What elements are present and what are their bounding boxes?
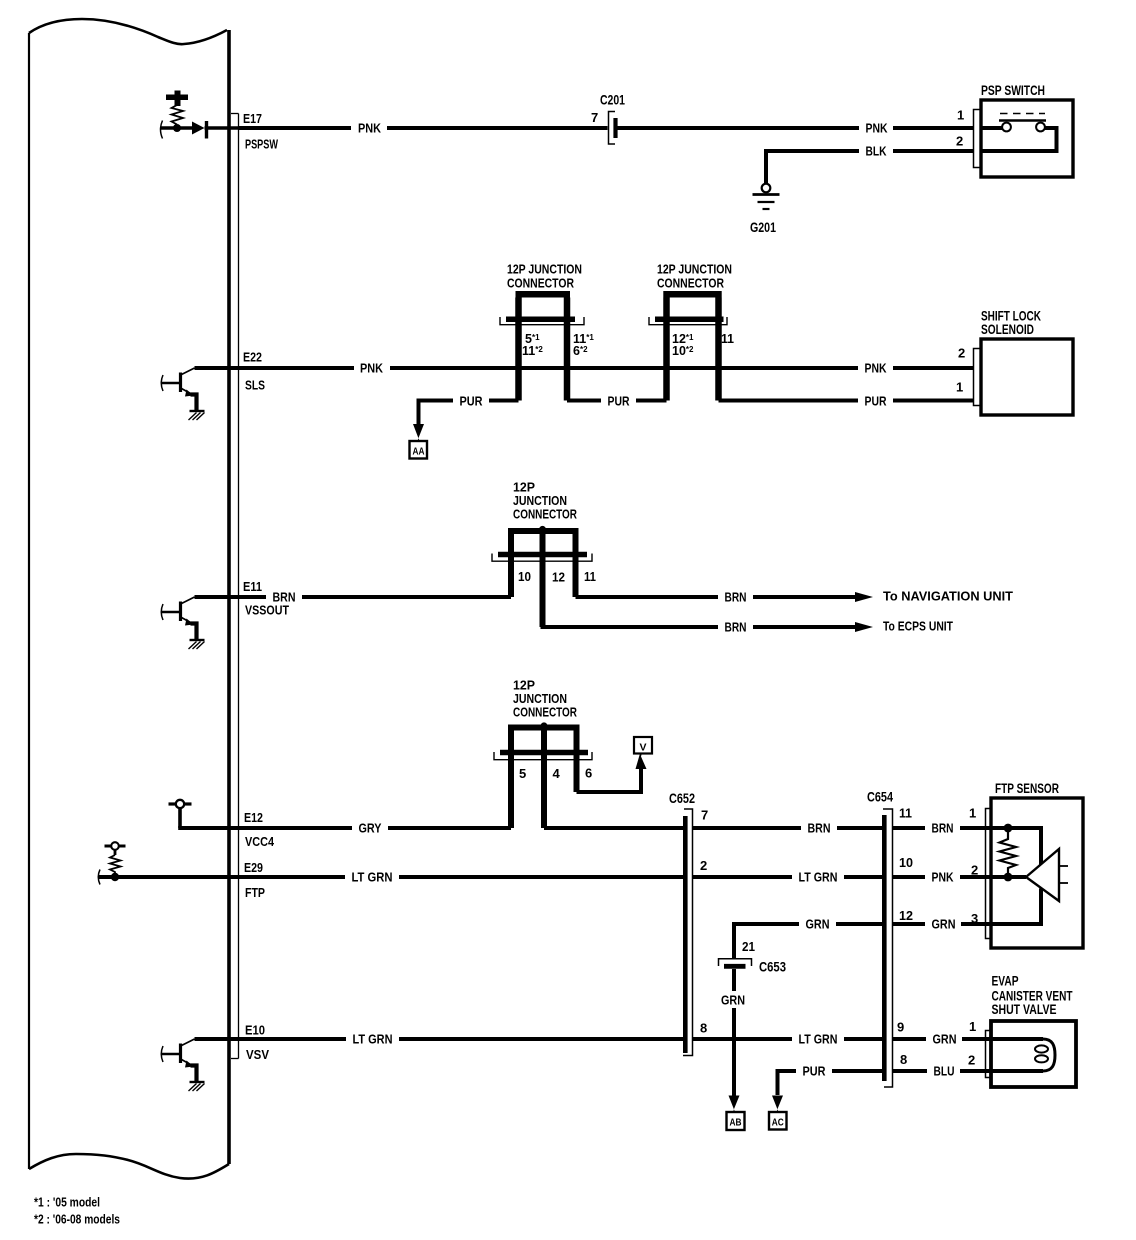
svg-text:VSV: VSV <box>246 1047 269 1062</box>
svg-text:12: 12 <box>899 908 913 923</box>
svg-text:E10: E10 <box>245 1023 265 1038</box>
label JC2 title <box>657 262 732 291</box>
svg-text:8: 8 <box>700 1021 707 1036</box>
FTP internal junction dot (pin2) <box>1004 873 1013 882</box>
svg-text:C652: C652 <box>669 791 695 806</box>
svg-text:2: 2 <box>700 858 707 873</box>
E17 internal diode <box>192 121 241 139</box>
svg-text:4: 4 <box>553 766 561 781</box>
junction connector JC4 (12P) body <box>494 722 592 828</box>
node AC (destination box) <box>769 1112 787 1130</box>
svg-text:8: 8 <box>900 1052 907 1067</box>
svg-text:11: 11 <box>899 806 912 821</box>
label PUR (AA branch) <box>453 392 489 409</box>
shift lock solenoid pin bracket <box>974 349 982 406</box>
EVAP canister vent shut valve box <box>991 974 1076 1088</box>
label GRN (vertical) <box>716 991 752 1008</box>
label GRN (row6 right) <box>925 915 961 932</box>
node AB (destination box) <box>727 1112 745 1130</box>
arrow to navigation unit <box>855 592 873 602</box>
E29 internal wire end bracket <box>98 870 100 885</box>
svg-text:V: V <box>639 742 646 754</box>
svg-text:FTP SENSOR: FTP SENSOR <box>995 781 1059 796</box>
svg-text:PUR: PUR <box>865 394 887 409</box>
label JC3 pins 10 12 11 <box>518 569 596 585</box>
svg-text:11: 11 <box>584 569 596 584</box>
label PNK (left segment row1) <box>351 119 387 136</box>
svg-text:1: 1 <box>969 1019 976 1034</box>
svg-text:SOLENOID: SOLENOID <box>981 322 1034 337</box>
label JC2 pin 12*1 / 10*2 / 11 <box>672 331 734 358</box>
E17 internal resistor <box>172 105 184 125</box>
svg-text:CONNECTOR: CONNECTOR <box>513 705 577 720</box>
svg-text:BLK: BLK <box>866 144 887 159</box>
wire PNK C201 to PSP switch <box>618 126 974 130</box>
svg-text:*1 : '05 model: *1 : '05 model <box>34 1196 100 1210</box>
label JC4 pins 5 4 6 <box>519 766 592 782</box>
svg-text:*2 : '06-08 models: *2 : '06-08 models <box>34 1213 120 1227</box>
FTP internal amplifier triangle <box>1026 849 1068 901</box>
label PNK (right segment row1) <box>859 119 893 136</box>
svg-text:BRN: BRN <box>273 590 296 605</box>
wire PUR AC branch to C654 pin 8 (row8) <box>778 1071 883 1095</box>
label PNK (row2 right) <box>858 359 893 376</box>
svg-text:BRN: BRN <box>725 590 747 605</box>
E17 node junction dot <box>173 124 181 132</box>
label BLK <box>859 142 893 159</box>
svg-text:1: 1 <box>969 806 976 821</box>
label PUR (row8) <box>796 1062 832 1079</box>
svg-text:C654: C654 <box>867 790 893 805</box>
wire LT GRN C652 to C654 (row5) <box>693 875 883 879</box>
wire JC4 pin 6 to V <box>577 768 642 792</box>
svg-text:2: 2 <box>956 134 963 149</box>
label GRN (row7 right) <box>926 1030 962 1047</box>
svg-text:10: 10 <box>518 569 531 584</box>
label LT GRN (row5 mid) <box>792 868 844 885</box>
svg-text:PNK: PNK <box>358 121 382 136</box>
svg-text:PUR: PUR <box>460 394 484 409</box>
svg-text:E12: E12 <box>244 810 263 825</box>
svg-text:CONNECTOR: CONNECTOR <box>513 507 577 522</box>
svg-text:BRN: BRN <box>932 821 954 836</box>
svg-text:GRN: GRN <box>721 993 745 1008</box>
svg-text:21: 21 <box>742 939 755 954</box>
label BRN (row4 mid) <box>801 819 837 836</box>
svg-text:GRN: GRN <box>932 917 956 932</box>
connector C654 <box>867 790 893 1088</box>
wire BRN JC3 pin 11 to navigation unit <box>576 595 858 599</box>
svg-text:To NAVIGATION UNIT: To NAVIGATION UNIT <box>883 589 1013 604</box>
transistor Q-E11 (VSSOUT driver) <box>161 597 196 640</box>
label LT GRN (row7 left) <box>346 1030 399 1047</box>
label JC4 title <box>513 678 577 720</box>
svg-text:LT GRN: LT GRN <box>352 870 393 885</box>
svg-text:PNK: PNK <box>866 121 888 136</box>
wire PUR JC1 to JC2 <box>567 399 667 403</box>
ground (E11 emitter) <box>189 640 205 649</box>
wire PNK E17 to C201 <box>239 126 608 130</box>
label BRN (row3 left) <box>266 588 302 605</box>
svg-text:12P JUNCTION: 12P JUNCTION <box>657 262 732 277</box>
svg-text:FTP: FTP <box>245 885 265 900</box>
svg-text:GRN: GRN <box>933 1032 957 1047</box>
ECM pin strip (thin connector rail) <box>231 114 239 1059</box>
arrow into AC <box>772 1096 783 1113</box>
E17 internal wire <box>161 126 192 130</box>
svg-text:PUR: PUR <box>803 1064 827 1079</box>
label BRN (ECPS) <box>718 618 753 635</box>
svg-text:2: 2 <box>971 863 978 878</box>
svg-text:G201: G201 <box>750 220 776 235</box>
junction connector JC2 (12P) body <box>649 294 727 400</box>
svg-text:SLS: SLS <box>245 378 265 393</box>
svg-text:1: 1 <box>957 108 964 123</box>
svg-text:PSP SWITCH: PSP SWITCH <box>981 83 1045 98</box>
wire GRN C653 to AB <box>732 969 736 1097</box>
svg-text:LT GRN: LT GRN <box>353 1032 393 1047</box>
svg-text:CONNECTOR: CONNECTOR <box>657 276 724 291</box>
svg-text:2: 2 <box>968 1053 975 1068</box>
svg-text:C201: C201 <box>600 93 625 108</box>
svg-text:VCC4: VCC4 <box>245 834 275 849</box>
FTP internal wire pin1 to amplifier <box>1008 828 1041 865</box>
wire GRY E12 to JC4 pin 5 <box>178 826 511 830</box>
label PUR (JC1-JC2) <box>601 392 636 409</box>
wire LT GRN E29 to C652 pin 2 <box>99 875 684 879</box>
svg-text:GRY: GRY <box>359 821 382 836</box>
EVAP solenoid coil <box>1035 1039 1055 1071</box>
label BRN (nav) <box>718 588 753 605</box>
label PNK (row2 left) <box>354 359 390 376</box>
svg-text:12P JUNCTION: 12P JUNCTION <box>507 262 582 277</box>
svg-text:BLU: BLU <box>934 1064 955 1079</box>
svg-text:AB: AB <box>730 1117 742 1129</box>
transistor Q-E22 (SLS driver) <box>161 368 196 411</box>
label LT GRN (row7 mid) <box>792 1030 844 1047</box>
svg-text:EVAP: EVAP <box>992 974 1019 989</box>
svg-text:1: 1 <box>956 380 963 395</box>
wire BLK PSP switch to G201 <box>766 151 974 184</box>
E17 internal pull-up power symbol <box>166 91 188 107</box>
node V (destination box) <box>634 737 652 754</box>
svg-text:5: 5 <box>519 766 526 781</box>
wire BRN C654 to FTP sensor pin 1 <box>893 826 1042 830</box>
svg-text:To ECPS UNIT: To ECPS UNIT <box>883 619 953 634</box>
svg-text:E11: E11 <box>243 579 262 594</box>
wire BRN C652 to C654 (row4) <box>693 826 883 830</box>
svg-text:AC: AC <box>772 1117 784 1129</box>
wire GRN C653 branch to FTP pin 3 (row6) <box>734 922 882 926</box>
svg-text:GRN: GRN <box>806 917 830 932</box>
svg-text:E17: E17 <box>243 111 262 126</box>
FTP internal resistor <box>1000 832 1017 873</box>
connector C653 <box>719 939 787 975</box>
svg-text:PNK: PNK <box>865 361 887 376</box>
svg-text:LT GRN: LT GRN <box>799 1032 838 1047</box>
svg-text:BRN: BRN <box>725 620 747 635</box>
wire PUR JC2 to shift lock solenoid <box>719 399 974 403</box>
label BRN (row4 right) <box>925 819 960 836</box>
junction connector JC1 (12P) body <box>500 294 584 400</box>
svg-text:AA: AA <box>413 446 425 458</box>
wire BLU C654 to EVAP valve pin 2 <box>893 1069 1044 1073</box>
label BLU (row8 right) <box>927 1062 960 1079</box>
label PUR (row2 right) <box>858 392 893 409</box>
ground (E22 emitter) <box>189 411 205 420</box>
label JC3 title <box>513 480 577 522</box>
ground G201 <box>750 184 780 235</box>
wire PNK C654 to FTP sensor pin 2 <box>893 875 1027 879</box>
svg-text:7: 7 <box>701 808 708 823</box>
label JC1 pin 5*1 / 11*2 <box>522 332 594 358</box>
wire GRY JC4 pin 4 to C652 pin 7 <box>544 826 683 830</box>
PSP switch internal contacts <box>981 114 1057 152</box>
E29 node junction dot <box>111 873 119 881</box>
svg-text:E22: E22 <box>243 350 262 365</box>
label GRN (row6 left) <box>799 915 836 932</box>
arrow into AA <box>413 424 424 441</box>
svg-text:CONNECTOR: CONNECTOR <box>507 276 574 291</box>
svg-text:2: 2 <box>958 346 965 361</box>
transistor Q-E10 (VSV driver) <box>161 1039 196 1082</box>
svg-text:PNK: PNK <box>932 870 954 885</box>
FTP sensor pin bracket <box>986 809 992 939</box>
E29 internal power source symbol <box>105 842 126 855</box>
wire BRN E11 to JC3 pin 10 <box>195 595 512 599</box>
svg-text:PUR: PUR <box>608 394 630 409</box>
E29 internal resistor <box>110 855 121 877</box>
svg-text:7: 7 <box>591 110 598 125</box>
svg-text:12: 12 <box>552 570 565 585</box>
FTP sensor box <box>991 781 1083 948</box>
ECM/PCM body box (torn edges) <box>29 19 229 1179</box>
wire BRN JC3 pin 12 to ECPS unit <box>543 597 858 627</box>
connector C652 <box>669 791 695 1056</box>
wire GRN C654 to EVAP valve pin 1 <box>893 1037 1044 1041</box>
svg-text:BRN: BRN <box>808 821 831 836</box>
svg-text:9: 9 <box>897 1020 904 1035</box>
svg-text:C653: C653 <box>759 960 786 975</box>
svg-text:PNK: PNK <box>360 361 384 376</box>
svg-text:LT GRN: LT GRN <box>799 870 838 885</box>
shift lock solenoid box <box>981 309 1073 416</box>
arrow up into V <box>636 754 647 770</box>
wire LT GRN C652 to C654 (row7) <box>693 1037 883 1041</box>
wire PNK E22 to shift lock solenoid <box>195 366 974 370</box>
svg-text:3: 3 <box>971 911 978 926</box>
node AA (destination box) <box>410 441 428 459</box>
arrow to ECPS unit <box>855 622 873 632</box>
wire PUR JC1 pin to AA <box>419 401 519 426</box>
EVAP pin bracket <box>986 1031 992 1078</box>
svg-text:E29: E29 <box>244 860 263 875</box>
label GRY <box>352 819 388 836</box>
svg-text:SHUT VALVE: SHUT VALVE <box>992 1002 1057 1017</box>
label LT GRN (row5 left) <box>345 868 399 885</box>
PSP switch box <box>981 83 1073 177</box>
FTP internal junction dot (pin1) <box>1004 824 1013 833</box>
svg-text:10: 10 <box>899 855 913 870</box>
E12 internal power source symbol <box>169 800 192 828</box>
wire LT GRN E10 to C652 pin 8 <box>195 1037 684 1041</box>
label JC1 title <box>507 262 582 291</box>
wire GRN vertical to C653 <box>732 922 736 959</box>
wire GRN C654 to FTP pin 3 <box>893 889 1042 925</box>
svg-text:6: 6 <box>585 766 592 781</box>
svg-text:11: 11 <box>721 331 734 346</box>
junction connector JC3 (12P) body <box>492 526 592 627</box>
ground (E10 emitter) <box>189 1082 205 1091</box>
svg-text:PSPSW: PSPSW <box>245 137 279 152</box>
arrow into AB <box>729 1096 740 1113</box>
label PNK (row5 right) <box>925 868 960 885</box>
PSP switch pin bracket <box>974 110 982 168</box>
connector C201 <box>591 93 625 145</box>
E17 internal wire end bracket <box>161 121 163 139</box>
